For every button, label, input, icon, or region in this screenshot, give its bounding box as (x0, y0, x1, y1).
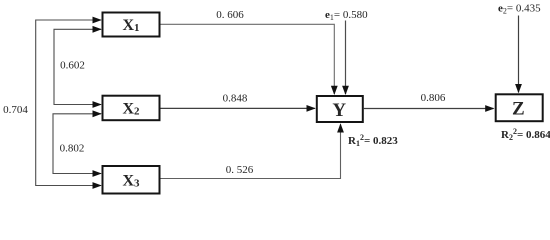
wire e2 to Z (518, 16, 520, 93)
svg-text:R22= 0.864: R22= 0.864 (501, 127, 550, 142)
box Z (496, 94, 543, 121)
arrowhead X1-Y into top of Y (331, 86, 338, 95)
arrowhead into X3 (inner) (93, 170, 102, 177)
svg-text:0.602: 0.602 (60, 60, 85, 72)
svg-text:0. 526: 0. 526 (226, 164, 254, 176)
arrowhead X3-Y into bottom of Y (337, 123, 344, 132)
box X1 (103, 13, 160, 37)
box Y (317, 96, 363, 122)
arrowhead Y-Z into left of Z (485, 105, 494, 112)
svg-text:0.848: 0.848 (223, 93, 248, 105)
svg-text:0.806: 0.806 (421, 92, 446, 104)
svg-text:0. 606: 0. 606 (216, 9, 244, 21)
box X3 (103, 166, 160, 194)
wire X1 to Y (path 0.606) (161, 24, 335, 94)
arrowhead e1 into top of Y (342, 86, 349, 95)
box X2 (103, 96, 160, 121)
svg-text:0.802: 0.802 (60, 143, 85, 155)
wire Y to Z (path 0.806) (364, 108, 494, 110)
wire X3 to Y (path 0.526) (161, 124, 341, 178)
arrowhead into X1 (inner) (93, 26, 102, 33)
wire X2 to Y (path 0.848) (161, 107, 315, 109)
svg-text:Y: Y (332, 100, 346, 121)
arrowhead into X2 (upper) (93, 101, 102, 108)
wire corr X1-X2 (inner upper bracket) (54, 29, 101, 104)
arrowhead into X3 (outer) (93, 182, 102, 189)
arrowhead e2 into top of Z (515, 84, 522, 93)
svg-text:0.704: 0.704 (3, 104, 28, 116)
wire e1 to Y (345, 21, 347, 95)
svg-text:R12= 0.823: R12= 0.823 (348, 133, 398, 148)
svg-text:Z: Z (512, 98, 525, 119)
arrowhead into X1 (outer) (93, 17, 102, 24)
wire corr X2-X3 (inner lower bracket) (53, 114, 101, 174)
arrowhead into X2 (lower) (93, 110, 102, 117)
wire corr X1-X3 (outer bracket) (36, 20, 101, 186)
arrowhead X2-Y into left of Y (307, 105, 316, 112)
